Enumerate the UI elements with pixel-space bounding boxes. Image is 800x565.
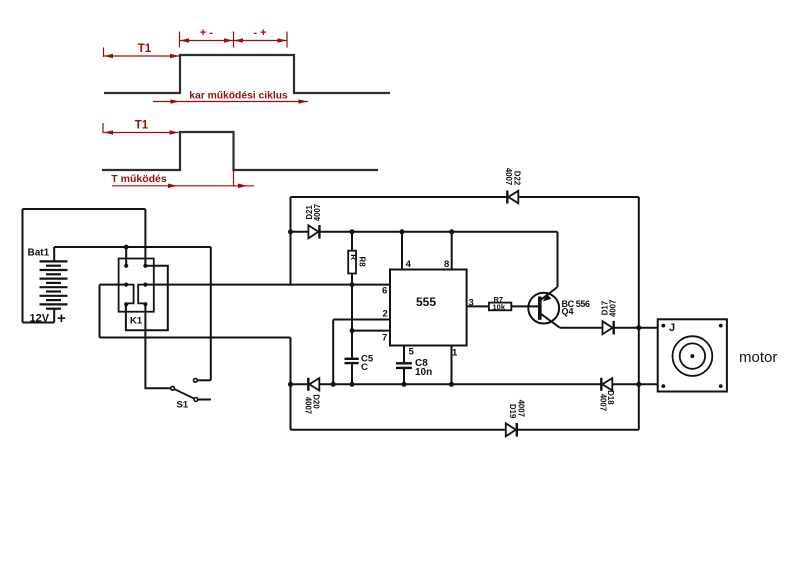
svg-text:R8: R8 xyxy=(358,257,367,268)
wire battery positive lead xyxy=(53,309,55,323)
svg-text:4007: 4007 xyxy=(304,397,313,414)
diode D21 xyxy=(308,225,319,239)
relay K1 contact right xyxy=(138,285,145,304)
junction R6 top xyxy=(350,229,355,234)
wire battery loop bottom xyxy=(23,322,55,324)
junction ground bus at x290 xyxy=(288,382,293,387)
svg-text:+ -: + - xyxy=(200,27,213,39)
timing diagram 1 left extension tick xyxy=(103,48,105,58)
wire C5 bottom lead xyxy=(351,364,353,384)
timing diagram 2 falling edge extension line xyxy=(233,170,235,187)
junction pin4 top xyxy=(400,229,405,234)
svg-text:1: 1 xyxy=(452,348,458,359)
wire switch feed vertical xyxy=(210,247,212,380)
wire battery negative lead xyxy=(53,247,55,261)
wire ground vertical x290 xyxy=(290,338,292,430)
wire pin2 horizontal xyxy=(333,319,390,321)
switch S1 right stub xyxy=(198,399,211,401)
svg-text:D19: D19 xyxy=(508,404,517,419)
svg-text:8: 8 xyxy=(444,259,449,270)
svg-text:S1: S1 xyxy=(177,400,189,411)
svg-text:+: + xyxy=(57,310,66,327)
wire pin1 lead xyxy=(451,346,453,385)
wire pin8 lead xyxy=(451,232,453,270)
resistor R7 xyxy=(489,303,511,311)
relay K1 contact left xyxy=(126,285,133,304)
svg-text:C: C xyxy=(361,362,368,373)
wire supply vertical x290 xyxy=(290,197,292,285)
wire relay top-right pin riser xyxy=(144,209,146,266)
svg-text:K1: K1 xyxy=(130,316,143,327)
svg-text:6: 6 xyxy=(382,286,387,297)
timing diagram 2 left extension tick xyxy=(102,123,104,133)
wire relay mid-left drop xyxy=(99,285,101,338)
wire switch throw top xyxy=(198,379,211,381)
wire R7 to base xyxy=(511,305,538,307)
wire Vcc rail xyxy=(291,232,558,287)
svg-text:4007: 4007 xyxy=(608,300,617,317)
wire relay mid-right to 555 pin6 xyxy=(145,284,390,286)
svg-text:5: 5 xyxy=(409,347,415,358)
timing diagram 1 span arrow + - xyxy=(180,40,234,42)
svg-text:4007: 4007 xyxy=(516,400,525,417)
junction motor lower node xyxy=(636,382,641,387)
svg-text:10k: 10k xyxy=(493,303,506,312)
relay K1 xyxy=(119,259,154,312)
junction battery to relay coil xyxy=(124,245,129,250)
wire C5 top lead xyxy=(351,331,353,358)
svg-text:7: 7 xyxy=(382,333,387,344)
junction pin6 node xyxy=(350,282,355,287)
timing diagram 2 T dimension line xyxy=(112,185,254,187)
diode D18 xyxy=(601,378,612,391)
diode D19 xyxy=(506,423,517,437)
junction pin1 at bus xyxy=(449,382,454,387)
junction C8 at bus xyxy=(402,382,407,387)
wire bottom return left of D19 xyxy=(291,429,506,431)
wire pin3 to R7 xyxy=(467,305,489,307)
junction motor upper node xyxy=(636,325,641,330)
junction pin2 at bus xyxy=(331,382,336,387)
wire top rail left of D22 xyxy=(291,196,508,198)
svg-text:D18: D18 xyxy=(606,390,615,405)
resistor R6 xyxy=(348,251,356,274)
wire ground run to right xyxy=(100,337,291,339)
wire relay detour top-right to bottom-left xyxy=(126,266,168,330)
wire pin6 node to pin7 node xyxy=(351,285,353,331)
transistor Q4 emitter arrow xyxy=(543,294,551,302)
junction C5 at bus xyxy=(350,382,355,387)
svg-text:motor: motor xyxy=(739,349,777,366)
wire relay top-left pin riser xyxy=(125,247,127,266)
svg-text:T működés: T működés xyxy=(111,173,167,185)
svg-text:4007: 4007 xyxy=(313,204,322,221)
wire R6 top lead xyxy=(351,232,353,251)
svg-text:4007: 4007 xyxy=(504,168,513,185)
motor mounting dots xyxy=(661,324,722,388)
wire pin4 lead xyxy=(401,232,403,270)
timing diagram 1 cycle dimension line xyxy=(153,101,308,103)
junction pin7 node xyxy=(350,328,355,333)
capacitor C8 xyxy=(396,363,412,368)
timing diagram 2 T1 dimension line xyxy=(104,132,179,134)
wire R6 bottom lead xyxy=(351,274,353,285)
switch S1 lever xyxy=(174,389,194,399)
timing diagram 1 T1 dimension line xyxy=(104,55,180,57)
svg-text:T1: T1 xyxy=(138,43,152,55)
wire pin5 lead xyxy=(403,346,405,363)
diode D20 xyxy=(308,378,319,391)
svg-text:12V: 12V xyxy=(30,312,50,324)
wire C8 bottom lead xyxy=(403,369,405,384)
svg-text:J: J xyxy=(669,322,675,334)
wire top rail right of D22 xyxy=(518,196,639,198)
svg-text:D20: D20 xyxy=(312,394,321,409)
svg-text:R: R xyxy=(349,254,358,260)
svg-text:10n: 10n xyxy=(415,367,432,378)
wire battery loop top xyxy=(23,208,146,210)
wire relay mid-left stub xyxy=(100,284,127,286)
wire ground bus to motor xyxy=(612,383,657,385)
svg-text:2: 2 xyxy=(383,309,388,320)
wire battery loop left xyxy=(22,209,24,323)
motor J xyxy=(658,319,727,391)
svg-text:- +: - + xyxy=(253,27,266,39)
junction pin8 top xyxy=(449,229,454,234)
diode D22 xyxy=(507,191,518,204)
switch S1 xyxy=(171,378,198,401)
timing diagram 2 pulse waveform xyxy=(102,132,378,170)
wire collector to D17 xyxy=(560,327,603,329)
IC 555 U1 xyxy=(390,270,467,346)
wire pin7 to 555 xyxy=(352,330,390,332)
diode D17 xyxy=(603,321,614,335)
svg-text:Bat1: Bat1 xyxy=(28,248,50,259)
battery Bat1 xyxy=(40,261,68,308)
svg-text:kar működési ciklus: kar működési ciklus xyxy=(189,91,288,102)
wire ground bus left of D20 xyxy=(291,383,309,385)
timing diagram 1 extension lines for +- spans xyxy=(180,32,288,48)
svg-text:T1: T1 xyxy=(135,120,149,132)
timing diagram 1 span arrow - + xyxy=(234,40,288,42)
wire bottom return right of D19 xyxy=(517,429,639,431)
wire pin2 drop xyxy=(332,320,334,385)
svg-text:555: 555 xyxy=(416,295,436,309)
capacitor C5 xyxy=(345,359,359,363)
svg-text:4: 4 xyxy=(406,259,412,270)
transistor Q4 xyxy=(528,287,560,328)
timing diagram 1 pulse waveform xyxy=(104,55,390,93)
wire battery plus rail to switch xyxy=(54,246,211,248)
wire right vertical x639 xyxy=(638,197,640,430)
wire ground bus middle xyxy=(319,383,601,385)
svg-text:Q4: Q4 xyxy=(562,307,574,317)
junction supply at D21 xyxy=(288,229,293,234)
wire relay bottom-right to switch xyxy=(145,304,170,388)
relay K1 pins xyxy=(124,264,147,307)
wire D17 to motor xyxy=(614,327,658,329)
svg-text:D22: D22 xyxy=(512,171,521,186)
